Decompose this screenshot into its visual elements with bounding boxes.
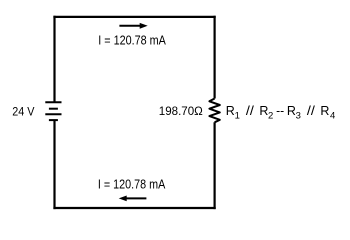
resistor R1//R2--R3//R4 equivalent (zigzag) — [209, 99, 219, 123]
svg-text://: // — [246, 104, 255, 118]
wire top (left corner to right corner) — [53, 16, 215, 18]
svg-text:3: 3 — [296, 110, 301, 121]
wire left lower (battery down to bottom corner) — [53, 120, 55, 209]
battery 24 V source — [45, 102, 61, 120]
wire bottom (left corner to right corner) — [53, 207, 215, 209]
svg-text:1: 1 — [235, 110, 240, 121]
wire right lower (bottom corner up to resistor) — [214, 122, 216, 209]
svg-text://: // — [307, 104, 316, 118]
current arrow top (pointing right) — [119, 23, 147, 29]
svg-text:R: R — [226, 104, 235, 118]
svg-text:4: 4 — [330, 110, 335, 121]
svg-text:R: R — [320, 104, 329, 118]
wire right upper (resistor up to top corner) — [214, 16, 216, 99]
wire left upper (top corner down to battery) — [53, 16, 55, 103]
svg-text:24 V: 24 V — [12, 105, 34, 119]
svg-text:I = 120.78 mA: I = 120.78 mA — [98, 34, 166, 48]
label resistor combination R1 // R2 -- R3 // R4 — [226, 104, 336, 121]
svg-text:2: 2 — [268, 110, 273, 121]
current arrow bottom (pointing left) — [119, 196, 147, 202]
svg-text:--: -- — [276, 104, 284, 118]
svg-text:I = 120.78 mA: I = 120.78 mA — [98, 178, 166, 192]
svg-text:198.70Ω: 198.70Ω — [159, 104, 203, 118]
svg-text:R: R — [287, 104, 296, 118]
